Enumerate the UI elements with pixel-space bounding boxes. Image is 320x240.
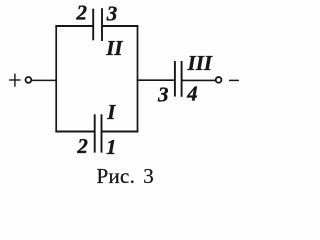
left input terminal circle [26, 77, 32, 83]
svg-text:II: II [105, 36, 123, 60]
terminal - (negative output symbol) [229, 79, 239, 81]
svg-text:2: 2 [76, 134, 88, 158]
svg-text:Рис. 3: Рис. 3 [97, 164, 155, 188]
wire: bottom branch right segment [102, 131, 138, 133]
wire: bottom branch left segment [55, 131, 94, 133]
wire: node B to capacitor III [137, 79, 175, 81]
capacitor I [95, 114, 102, 152]
svg-text:3: 3 [106, 2, 118, 26]
svg-text:1: 1 [106, 135, 117, 159]
capacitor III [175, 61, 182, 97]
svg-text:3: 3 [157, 82, 169, 106]
wire: capacitor III to output terminal [182, 79, 216, 81]
wire: input terminal to node A [32, 79, 57, 81]
svg-text:III: III [187, 51, 213, 75]
wire: top branch right segment [103, 25, 139, 27]
svg-text:4: 4 [186, 82, 198, 106]
capacitor II [93, 8, 102, 41]
svg-text:I: I [106, 100, 116, 124]
terminal + (positive input symbol) [9, 74, 21, 87]
wire: right vertical bus (node B) [137, 25, 139, 132]
wire: top branch left segment [55, 25, 92, 27]
wire: left vertical bus (node A) [55, 25, 57, 132]
svg-text:2: 2 [76, 1, 88, 25]
right output terminal circle [216, 77, 222, 83]
